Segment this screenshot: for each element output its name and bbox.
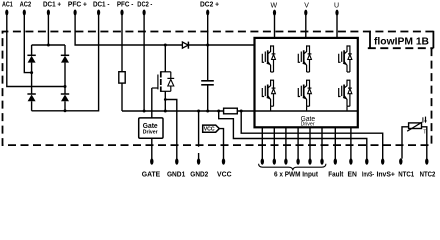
svg-text:GND1: GND1 xyxy=(167,170,185,179)
module dashed border xyxy=(3,32,434,146)
svg-text:DC1 +: DC1 + xyxy=(43,0,61,9)
pin terminal PWM2 xyxy=(273,158,276,164)
pin terminal DC2+ xyxy=(206,10,209,16)
svg-text:DC1 -: DC1 - xyxy=(93,0,110,9)
IGBT T6 bottom-right xyxy=(339,80,352,107)
junction InvS+ tap xyxy=(240,110,243,113)
svg-text:VCC: VCC xyxy=(204,127,215,133)
pin W xyxy=(274,14,276,38)
resistor R1 PFC shunt xyxy=(119,72,125,83)
junction DC1+ on rail xyxy=(47,44,50,47)
pin terminal V xyxy=(304,10,307,16)
junction kelvin tap xyxy=(164,98,167,101)
diode D4 bridge bottom-right xyxy=(61,94,69,111)
pin terminal GND2 xyxy=(197,158,200,164)
pin terminal VCC xyxy=(222,158,225,164)
pin terminal InvS+ xyxy=(381,158,384,164)
junction AC1 node xyxy=(64,85,67,88)
wire PFC+ rail to inverter xyxy=(75,14,254,45)
pin terminal NTC1 xyxy=(399,158,402,164)
pin terminal PWM6 xyxy=(320,158,323,164)
capacitor C1 DC link xyxy=(201,45,214,111)
svg-text:VCC: VCC xyxy=(217,170,232,179)
inverter module box xyxy=(255,38,358,127)
svg-text:GATE: GATE xyxy=(142,170,161,179)
pin terminal DC1+ xyxy=(47,10,50,16)
pin terminal NTC2 xyxy=(425,158,428,164)
MOSFET Q1 PFC switch xyxy=(152,45,174,111)
svg-text:Driver: Driver xyxy=(301,121,315,127)
wire GND2 tap xyxy=(198,111,200,159)
thermistor NTC xyxy=(402,117,427,159)
pin terminal PWM1 xyxy=(261,158,264,164)
IGBT T3 top-right xyxy=(339,45,352,72)
brace 6xPWM group xyxy=(259,164,326,171)
junction GND2 tap xyxy=(197,110,200,113)
pin V xyxy=(305,14,307,38)
junction Q1 source on bus xyxy=(164,110,167,113)
pin DC1+ xyxy=(47,14,49,45)
svg-text:DC2 +: DC2 + xyxy=(200,0,219,9)
svg-text:AC2: AC2 xyxy=(20,0,32,9)
pin terminal EN xyxy=(349,158,352,164)
junction DC2- on bus xyxy=(143,110,146,113)
pin terminal GATE xyxy=(150,158,153,164)
pin AC2 xyxy=(24,14,31,73)
svg-text:NTC1: NTC1 xyxy=(398,170,414,179)
junction AC2 node xyxy=(30,71,33,74)
IGBT lower emitter stubs to driver bar xyxy=(271,106,347,111)
svg-text:InvS+: InvS+ xyxy=(376,170,395,179)
wire kelvin source to GND1 xyxy=(165,100,177,159)
svg-text:W: W xyxy=(270,3,277,10)
VCC net tag xyxy=(203,125,220,132)
pin DC2- xyxy=(143,14,145,111)
junction InvS- tap xyxy=(217,110,220,113)
svg-text:InvS-: InvS- xyxy=(362,170,375,179)
pin terminal PWM4 xyxy=(296,158,299,164)
pin terminal PFC+ xyxy=(74,10,77,16)
wire DC1+ rail (bridge top rail) xyxy=(32,44,65,46)
gate driver U1 box xyxy=(139,118,163,138)
wire InvS- staircase xyxy=(219,111,367,159)
svg-text:GND2: GND2 xyxy=(190,170,208,179)
pin terminal PWM3 xyxy=(284,158,287,164)
diode D2 bridge top-right xyxy=(61,45,69,94)
svg-text:U: U xyxy=(334,3,339,10)
IGBT T5 bottom-middle xyxy=(298,80,311,107)
svg-text:Driver: Driver xyxy=(143,129,158,135)
wire VCC pin xyxy=(219,129,223,159)
pin terminal InvS- xyxy=(365,158,368,164)
pin terminal PFC- xyxy=(120,10,123,16)
junction Q1 drain on rail xyxy=(164,44,167,47)
pin terminal W xyxy=(273,10,276,16)
pin terminal AC1 xyxy=(5,10,8,16)
svg-text:DC2 -: DC2 - xyxy=(137,0,152,9)
diode D1 bridge top-left xyxy=(27,45,35,94)
junction C1 on bus xyxy=(206,110,209,113)
wire DC- bus xyxy=(122,110,358,112)
diode D5 boost xyxy=(182,42,188,49)
IGBT T2 top-middle xyxy=(298,45,311,72)
svg-text:V: V xyxy=(304,3,309,10)
pin terminal GND1 xyxy=(175,158,178,164)
wire PFC gate xyxy=(151,88,153,118)
pin DC1- xyxy=(32,14,99,111)
svg-text:flowIPM 1B: flowIPM 1B xyxy=(374,36,429,47)
svg-text:EN: EN xyxy=(348,170,357,179)
pin DC2+ xyxy=(207,14,209,45)
IGBT T1 top-left xyxy=(262,45,275,72)
pin AC1 xyxy=(7,14,65,87)
pin PFC- with shunt resistor R1 xyxy=(121,14,123,72)
junction bridge bottom rail xyxy=(64,109,67,112)
pin terminal Fault xyxy=(334,158,337,164)
svg-text:NTC2: NTC2 xyxy=(420,170,436,179)
diode D3 bridge bottom-left xyxy=(27,94,35,111)
svg-text:PFC +: PFC + xyxy=(68,0,87,9)
svg-text:PFC -: PFC - xyxy=(117,0,134,9)
pin terminal U xyxy=(335,10,338,16)
wire 6x PWM + Fault + EN fan-out xyxy=(262,127,351,158)
pin terminal AC2 xyxy=(23,10,26,16)
IGBT T4 bottom-left xyxy=(262,80,275,107)
svg-text:AC1: AC1 xyxy=(2,0,13,9)
wire InvS+ staircase xyxy=(241,111,383,159)
junction DC2+ on rail xyxy=(206,44,209,47)
resistor R2 inverter shunt xyxy=(224,108,238,114)
flowIPM 1B label tab xyxy=(368,31,434,48)
wire GATE pin xyxy=(151,138,153,158)
pin terminal DC2- xyxy=(143,10,146,16)
pin U xyxy=(336,14,338,38)
svg-text:6 x PWM Input: 6 x PWM Input xyxy=(274,170,319,179)
pin terminal DC1- xyxy=(97,10,100,16)
pin terminal PWM5 xyxy=(308,158,311,164)
svg-text:Fault: Fault xyxy=(328,170,344,179)
